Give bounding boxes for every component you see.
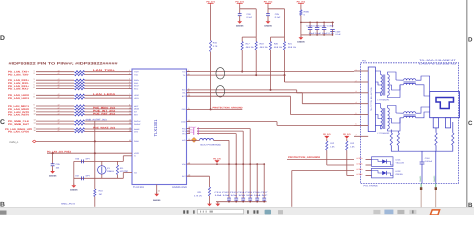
series resistor R222 [75, 120, 85, 122]
IC U1 TLX1301 body [132, 69, 187, 185]
svg-text:1: 1 [34, 69, 35, 72]
taskbar icon far left [0, 211, 7, 215]
choke L2 winding a [404, 112, 416, 114]
svg-text:PD_LAN_LED1: PD_LAN_LED1 [8, 97, 30, 100]
transformer T1 connections [375, 71, 400, 98]
svg-text:POE_WAKE_3V3: POE_WAKE_3V3 [93, 127, 116, 130]
svg-text:47: 47 [58, 84, 60, 87]
svg-text:RX+: RX+ [182, 89, 186, 92]
off-page connector PWM_A [33, 140, 37, 143]
taskbar icon pause 2 [247, 210, 258, 213]
capacitor C307 [323, 22, 325, 27]
wire PROTECTION_GROUND [187, 108, 243, 110]
magnetics pin SHD [354, 135, 368, 137]
svg-text:C: C [468, 120, 473, 127]
capacitor C315 [255, 198, 259, 201]
wire PFB1 fan [197, 130, 243, 132]
svg-text:47: 47 [58, 119, 60, 122]
wire TX- jog down [284, 75, 286, 82]
wire row PD_LAN_LED0 right segment [85, 94, 129, 96]
series resistor R217 [75, 97, 85, 99]
wire row PD_LAN_LED1 right segment [85, 97, 129, 99]
svg-text:3: 3 [356, 90, 357, 93]
svg-text:6: 6 [34, 86, 35, 89]
svg-text:2: 2 [356, 79, 357, 82]
U1 pin stub row 9 [129, 105, 133, 107]
termination rail [391, 145, 453, 151]
wire RX+ pair [187, 89, 297, 91]
cap bank top rail [301, 21, 334, 23]
wire jog to R17 [242, 36, 256, 38]
diode LED2 [382, 171, 386, 175]
resistor R10 1M [94, 189, 96, 197]
choke L1 connections [394, 76, 430, 96]
capacitor C311 [227, 198, 231, 201]
wire row PD_LAN_RX1- left segment [36, 88, 74, 90]
U1 pin stub row 14 [129, 123, 133, 125]
wire RX+ jog [296, 90, 298, 93]
svg-text:47: 47 [58, 107, 60, 110]
svg-text:1.0K: 1.0K [350, 146, 355, 149]
U1 pin stub row 4 [129, 82, 133, 84]
svg-text:SMDAT: SMDAT [134, 123, 141, 126]
svg-text:47: 47 [58, 104, 60, 107]
wire column C stem [267, 5, 269, 14]
svg-text:VD33: VD33 [134, 152, 139, 155]
svg-text:C311 C312 C313 C314 C315 C316: C311 C312 C313 C314 C315 C316 C317 [215, 191, 269, 194]
wire row PD_LAN_RX1+ left segment [36, 85, 74, 87]
svg-text:4.7K: 4.7K [213, 45, 218, 48]
wire VDA pin rail [187, 163, 265, 165]
svg-text:1.0K: 1.0K [330, 146, 335, 149]
wire row PD_LAN_RST0 left segment [36, 114, 74, 116]
taskbar icon gray [278, 210, 283, 214]
resistor R13 1.0K [346, 141, 348, 150]
svg-text:33: 33 [158, 190, 160, 193]
wire PFB2 fan [197, 133, 236, 135]
svg-text:YELLOW: YELLOW [396, 162, 404, 165]
svg-text:LVDD: LVDD [181, 120, 186, 123]
svg-text:R306: R306 [304, 10, 310, 13]
transformer T2 core [382, 108, 384, 129]
svg-text:LAGY-0 10/100 NJ: LAGY-0 10/100 NJ [419, 62, 456, 65]
wire row PD_LAN_MDIO right segment [85, 108, 129, 110]
svg-text:16: 16 [129, 129, 131, 132]
transformer T2 secondary winding [388, 108, 390, 129]
svg-text:7: 7 [356, 134, 357, 137]
twisted pair ellipse RX [216, 86, 225, 97]
wire LAN_VDD to pin6 [187, 121, 278, 123]
svg-text:LAN_LED0: LAN_LED0 [93, 93, 116, 96]
svg-text:47: 47 [58, 96, 60, 99]
svg-text:C305 C306 C307 C308: C305 C306 C307 C308 [307, 25, 335, 28]
transformer T2 primary winding [381, 108, 383, 129]
choke L2 winding b [404, 116, 416, 118]
capacitor C05 0.1uF [266, 14, 270, 16]
resistor R12 1.0K [326, 141, 328, 150]
svg-text:4: 4 [356, 101, 357, 104]
wire R17 to TX+ net [241, 50, 243, 72]
svg-text:8: 8 [34, 96, 35, 99]
no-ERC marks on PFB nets [194, 127, 198, 130]
ground GND decoupling rail [217, 202, 219, 204]
crystal Y1 25MHz [98, 166, 106, 174]
svg-text:CHAS2: CHAS2 [433, 176, 436, 182]
wire row PD_SMB_DAT left segment [36, 123, 74, 125]
svg-text:49.9 1%: 49.9 1% [288, 46, 296, 49]
svg-text:TD+ TCT TD- RD+ RCT RD-: TD+ TCT TD- RD+ RCT RD- [370, 87, 373, 111]
svg-text:PFBOUT: PFBOUT [189, 126, 197, 129]
wire R31 to ground [209, 196, 211, 204]
svg-text:47: 47 [58, 122, 60, 125]
U1 pin stub row 11 [129, 111, 133, 113]
wire row PD_LAN_WAKE_UP0 right segment [85, 128, 129, 130]
ground GND C05 [50, 171, 55, 174]
svg-text:14: 14 [129, 122, 131, 125]
resistor R31 4.7K [208, 187, 210, 196]
ground GND C [266, 21, 271, 24]
svg-text:9: 9 [129, 104, 130, 107]
wire row PD_LAN_CFG0 left segment [36, 131, 74, 133]
diode LED1 [382, 159, 386, 163]
series resistor R215 [75, 87, 85, 89]
svg-text:MDIO: MDIO [134, 108, 139, 111]
svg-text:47: 47 [58, 86, 60, 89]
svg-text:PD_SMB_DAT: PD_SMB_DAT [8, 123, 30, 126]
taskbar icon teal [265, 210, 271, 215]
svg-text:LED2: LED2 [396, 170, 402, 173]
svg-text:PD_LAN_CFG0: PD_LAN_CFG0 [8, 130, 30, 133]
wire RX center tap [187, 95, 291, 97]
capacitor C312 [234, 198, 238, 201]
series resistor R214 [75, 85, 85, 87]
svg-text:NPT: NPT [86, 158, 91, 161]
wire R12 to LED1K [326, 150, 328, 165]
termination resistor RT2 [397, 131, 399, 133]
wire row PD_LAN_RX0+ left segment [36, 79, 74, 81]
svg-text:47: 47 [58, 110, 60, 113]
wire row PD_LAN_MDC1 left segment [36, 105, 74, 107]
capacitor C314 [248, 198, 252, 201]
wire row PD_LAN_CFG0 right segment [85, 131, 129, 133]
ground GND U1 [154, 194, 159, 197]
choke L1 core [404, 81, 416, 83]
wire C05 to ground [52, 166, 54, 171]
wire bead to cluster [214, 139, 230, 141]
U1 pin stub row 2 [129, 74, 133, 76]
wire cap to ground B [239, 16, 241, 22]
svg-text:GND05: GND05 [49, 174, 57, 177]
wire row PD_LAN_WAKE_UP0 left segment [36, 128, 74, 130]
magnetics pin TX- [354, 92, 368, 94]
U1 pin stub row 15 [129, 128, 133, 130]
wire row PD_LAN_TX0+ left segment [36, 71, 74, 73]
wire row PD_LAN_RX0+ right segment [85, 79, 129, 81]
termination resistor RT1 [390, 130, 392, 133]
svg-text:49.9 1%: 49.9 1% [246, 46, 254, 49]
svg-text:PGD: PGD [182, 108, 187, 111]
chassis wire 2 [435, 184, 437, 188]
crystal top rail [74, 160, 124, 162]
svg-text:#IDP93822 PIN TO PIN##; #IDP93: #IDP93822 PIN TO PIN##; #IDP93822##### [9, 61, 118, 65]
svg-text:GND05: GND05 [297, 41, 305, 44]
wire row PD_LAN_RX0- left segment [36, 82, 74, 84]
svg-text:7: 7 [129, 93, 130, 96]
svg-text:TLX1301: TLX1301 [133, 186, 145, 189]
U1 pin stub row 16 [129, 131, 133, 133]
resistor R306 0 [300, 10, 302, 16]
U1 pin stub row 8 [129, 97, 133, 99]
wire decoupling cap drop 6 [263, 164, 265, 202]
svg-text:D: D [0, 35, 5, 42]
svg-text:PO1 TRANS: PO1 TRANS [364, 185, 379, 188]
wire decoupling cap drop 5 [256, 164, 258, 202]
series resistor R221 [75, 114, 85, 116]
svg-text:GND05: GND05 [153, 199, 161, 202]
taskbar icon tray 2 [384, 210, 393, 215]
wire LED1A [287, 159, 354, 161]
svg-text:5: 5 [129, 83, 130, 86]
capacitor C04 0.1uF [238, 14, 242, 16]
wire termination center drop [421, 151, 423, 162]
svg-text:4: 4 [129, 81, 130, 84]
svg-text:1M: 1M [99, 193, 102, 196]
wire row PD_LAN_MDIO left segment [36, 108, 74, 110]
svg-text:47: 47 [58, 69, 60, 72]
svg-text:2: 2 [129, 72, 130, 75]
U1 pin stub row 10 [129, 108, 133, 110]
svg-text:LED0: LED0 [134, 94, 139, 97]
svg-text:D: D [468, 36, 473, 43]
svg-text:LT TRANSF2: LT TRANSF2 [378, 132, 391, 135]
capacitor C313 [241, 198, 245, 201]
svg-text:RX1-: RX1- [134, 87, 139, 90]
twisted pair ellipse TX [216, 68, 225, 79]
svg-text:LAN_TX0+: LAN_TX0+ [93, 69, 116, 72]
U1 pin stub row 12 [129, 114, 133, 116]
svg-text:GND05: GND05 [264, 25, 272, 28]
series resistor R212 [75, 79, 85, 81]
svg-text:GREEN: GREEN [396, 173, 404, 176]
svg-text:SMCLK: SMCLK [134, 120, 141, 123]
svg-text:3: 3 [34, 78, 35, 81]
wire column D stem [300, 5, 302, 10]
series resistor R225 [75, 130, 85, 132]
svg-text:PD_3V3: PD_3V3 [323, 133, 331, 136]
wire PG_LAN_3V3_POE2 [47, 152, 132, 154]
svg-text:14: 14 [34, 122, 36, 125]
U1 pin stub row 1 [129, 71, 133, 73]
resistor R21 49.9 1% [284, 37, 286, 41]
svg-text:POE_MDIO_3V3: POE_MDIO_3V3 [93, 106, 116, 109]
svg-text:PFO: PFO [182, 127, 186, 130]
svg-text:47: 47 [58, 72, 60, 75]
wire PWM_A [36, 140, 132, 142]
IC U1 right pin stubs [187, 71, 191, 73]
svg-text:TLX1301: TLX1301 [153, 119, 158, 137]
termination resistor RT3 [435, 133, 437, 146]
svg-text:TX-: TX- [183, 74, 186, 77]
wire crystal to XI pin [122, 156, 124, 162]
wire AVDD pin to bead [187, 139, 200, 141]
wire RX- pair [187, 92, 303, 94]
svg-text:POE_RST_3V3: POE_RST_3V3 [93, 112, 116, 115]
svg-text:CHAS1: CHAS1 [419, 176, 422, 182]
svg-text:1: 1 [356, 68, 357, 71]
svg-text:PD_3V3: PD_3V3 [343, 133, 351, 136]
svg-text:11: 11 [34, 110, 36, 113]
svg-text:5: 5 [34, 84, 35, 87]
wire branch B to R19 [240, 8, 257, 10]
wire R306 to rail [300, 15, 302, 22]
capacitor C306 [316, 22, 318, 27]
svg-text:CFG: CFG [134, 130, 139, 133]
svg-text:PD_LAN_RST0: PD_LAN_RST0 [8, 114, 30, 117]
wire cap to ground C [267, 16, 269, 22]
magnetics pin RX- [354, 124, 368, 126]
wire LED2A [292, 170, 354, 172]
svg-text:SMB_ALERT_3V3: SMB_ALERT_3V3 [86, 119, 108, 122]
magnetics pin TX+ [354, 70, 368, 72]
svg-text:1: 1 [129, 69, 130, 72]
svg-text:PD_LAN_TX0-: PD_LAN_TX0- [8, 73, 29, 76]
svg-text:0.1uF: 0.1uF [247, 16, 253, 19]
wire bank to ground [300, 22, 302, 37]
ground GND bank [299, 37, 304, 40]
wire crystal left leg [73, 161, 75, 185]
magnetics connector block [368, 67, 375, 132]
wire row PD_LAN_LED1 left segment [36, 97, 74, 99]
choke L2 connections [394, 107, 430, 123]
wire PFBOUT fan [197, 128, 250, 130]
svg-text:RX-: RX- [182, 92, 185, 95]
series resistor R211 [75, 73, 85, 75]
magnetics pin TCT [354, 81, 368, 83]
wire row PD_LAN_INT0 left segment [36, 111, 74, 113]
wire row PD_LAN_RST0 right segment [85, 114, 129, 116]
svg-text:LED2A: LED2A [357, 168, 364, 171]
wire TX+ pair [187, 71, 355, 73]
taskbar icon orange app [430, 210, 439, 215]
magnetics pin RCT [354, 114, 368, 116]
svg-text:104 104 104 104 104 104: 104 104 104 104 104 104 NC [215, 194, 269, 197]
resistor R19 49.9 1% [255, 37, 257, 41]
U1 pin stub row 6 [129, 88, 133, 90]
wire R19 to TX- net [255, 50, 257, 75]
svg-text:C: C [0, 119, 5, 126]
U1 pin stub row 5 [129, 85, 133, 87]
svg-text:PROTECTION_GROUND2: PROTECTION_GROUND2 [288, 156, 321, 159]
wire R20 to RX+ net [270, 50, 272, 90]
svg-text:4: 4 [34, 81, 35, 84]
resistor R17 49.9 1% [241, 42, 243, 51]
svg-text:7: 7 [34, 93, 35, 96]
svg-text:6: 6 [356, 123, 357, 126]
ground GND crystal [71, 185, 76, 188]
capacitor C305 [309, 22, 311, 27]
svg-text:GND05: GND05 [236, 25, 244, 28]
wire column A upper [210, 5, 212, 41]
wire row PD_LAN_RX1- right segment [85, 88, 129, 90]
LED1 diode box [372, 157, 394, 167]
taskbar icon tray 3 [397, 210, 404, 214]
svg-text:PD_1V0: PD_1V0 [213, 157, 221, 160]
wire TX- pair [187, 74, 285, 76]
inductor BLK2 [200, 139, 214, 141]
decoupling ground rail [216, 201, 267, 203]
wire R10 tail [94, 197, 96, 207]
svg-text:GND_PD 0: GND_PD 0 [61, 203, 76, 206]
capacitor C05 104 [51, 164, 55, 166]
svg-text:2: 2 [34, 72, 35, 75]
wire R13 to LED2K [346, 150, 348, 175]
svg-text:0.1uF: 0.1uF [336, 33, 342, 36]
LED2 diode box [372, 168, 394, 178]
wire TX- to pin2 [285, 81, 355, 83]
wire LED1 pull [326, 139, 328, 142]
svg-text:0.1uF: 0.1uF [275, 16, 281, 19]
svg-text:47: 47 [58, 78, 60, 81]
resistor R20 49.9 1% [269, 42, 271, 51]
cap bank bottom rail [310, 34, 332, 36]
wire cap C05 branch [52, 153, 54, 163]
wire row PD_SMB_DAT right segment [85, 123, 129, 125]
wire RX- jog [301, 93, 303, 104]
magnetics pin RX+ [354, 103, 368, 105]
svg-text:10: 10 [34, 107, 36, 110]
svg-text:3: 3 [129, 78, 130, 81]
taskbar icon tray 4 [409, 210, 416, 214]
U1 pin stub row 7 [129, 94, 133, 96]
svg-text:13: 13 [129, 119, 131, 122]
svg-text:TX+: TX+ [182, 70, 185, 73]
wire row PD_LAN_RX0- right segment [85, 82, 129, 84]
svg-text:8: 8 [129, 96, 130, 99]
svg-text:GND05: GND05 [70, 189, 78, 192]
wire row PD_LAN_TX0+ right segment [85, 71, 129, 73]
svg-text:LED1: LED1 [134, 97, 139, 100]
wire branch C to R21 [268, 8, 285, 10]
svg-text:12: 12 [34, 112, 36, 115]
chassis wire 1 [420, 184, 422, 188]
capacitor C310 2KV [420, 162, 425, 164]
svg-text:LED1K: LED1K [357, 162, 364, 165]
capacitor C07 NPT [82, 176, 84, 180]
svg-text:BLK2 POWER(B): BLK2 POWER(B) [201, 143, 221, 146]
choke L1 winding b [404, 83, 416, 85]
sheet frame right border [466, 0, 468, 207]
svg-text:16: 16 [34, 129, 36, 132]
transformer T1 secondary winding [388, 75, 390, 96]
series resistor R213 [75, 82, 85, 84]
svg-text:11: 11 [129, 109, 131, 112]
resistor R16 4.7K [210, 41, 212, 52]
capacitor C06 NPT [82, 160, 84, 164]
svg-text:LED2K: LED2K [357, 173, 364, 176]
svg-text:PFB2: PFB2 [189, 131, 194, 134]
wire jog to R20 [271, 36, 285, 38]
svg-text:LED1: LED1 [396, 158, 402, 161]
svg-text:49.9 1%: 49.9 1% [260, 46, 268, 49]
wire column A lower [210, 52, 212, 110]
svg-text:POE_INT_3V3: POE_INT_3V3 [93, 109, 116, 112]
series resistor R216 [75, 94, 85, 96]
series resistor R219 [75, 108, 85, 110]
magnetics module PO1 outline [361, 63, 459, 184]
wire crystal to XO pin [122, 173, 124, 179]
RJ45 jack face [436, 98, 454, 109]
choke L1 winding a [404, 79, 416, 81]
